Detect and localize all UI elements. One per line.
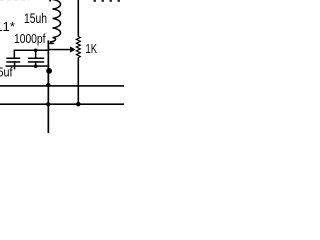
wire: capacitor C2 top stub: [35, 50, 37, 59]
resistor R 1K zigzag body: [76, 37, 80, 58]
node: junction dot C2 bottom: [34, 64, 38, 68]
wire: capacitor top rail: [14, 50, 50, 52]
node: junction dot left vertical on lower bus: [46, 102, 50, 106]
wire: capacitor C1 top stub: [14, 50, 16, 59]
node: junction dot C2 top: [34, 49, 38, 53]
wire: vertical from coil down to bottom edge: [48, 40, 50, 133]
wire: inductor bottom hook tick: [48, 43, 54, 45]
svg-text:5uf: 5uf: [0, 65, 13, 79]
wire: resistor top lead: [78, 0, 80, 37]
capacitor C1 bottom plate: [6, 61, 20, 63]
capacitor C2 bottom plate: [28, 61, 44, 63]
wire: faint cropped line at top-left edge: [0, 0, 29, 2]
wire: horizontal wire to potentiometer wiper: [49, 49, 71, 51]
svg-text:1K: 1K: [86, 41, 98, 56]
capacitor C2 top plate: [28, 58, 44, 60]
svg-text:1000pf: 1000pf: [14, 32, 46, 46]
wire: upper horizontal bus: [0, 85, 124, 87]
inductor L1 coil: [50, 0, 61, 42]
wire: lower horizontal bus: [0, 103, 124, 105]
wiper arrowhead: [70, 46, 76, 52]
svg-text:15uh: 15uh: [24, 10, 47, 26]
wire: coil top lead cropped at top edge: [49, 0, 51, 2]
node: junction dot left vertical on upper bus: [46, 83, 50, 87]
svg-text:L1*: L1*: [0, 20, 15, 34]
wire: resistor bottom lead: [78, 58, 80, 105]
wire: capacitor C1 bottom stub: [14, 61, 16, 69]
wire: cropped dotted marks at top-right edge: [94, 0, 120, 2]
capacitor C1 top plate: [6, 58, 20, 60]
node: junction dot resistor to lower bus: [76, 102, 81, 107]
wire: capacitor bottom rail: [6, 65, 50, 67]
wire: capacitor C2 bottom stub: [35, 61, 37, 66]
node: large junction dot below cap rail: [46, 68, 52, 74]
